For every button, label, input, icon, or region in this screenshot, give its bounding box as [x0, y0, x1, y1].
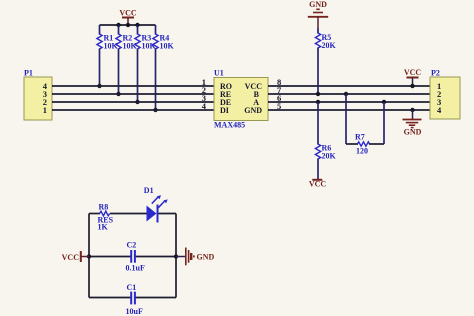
resistor R4 10K: [153, 25, 175, 112]
svg-text:D1: D1: [144, 186, 154, 195]
resistor R1 10K: [97, 25, 119, 88]
resistor R2 10K: [116, 25, 138, 96]
svg-text:GND: GND: [244, 106, 262, 115]
svg-text:C1: C1: [127, 283, 137, 292]
power port GND (below P2): [403, 108, 422, 137]
svg-text:MAX485: MAX485: [214, 121, 245, 130]
svg-text:10uF: 10uF: [126, 307, 143, 316]
svg-text:GND: GND: [404, 128, 422, 137]
wire left rail of lamp circuit: [88, 214, 90, 298]
connector P1: [24, 69, 52, 121]
svg-text:U1: U1: [214, 69, 224, 78]
resistor R5 20K: [315, 28, 336, 96]
wire U1.7 B net to P2.2: [268, 93, 430, 95]
svg-text:VCC: VCC: [62, 253, 80, 262]
svg-text:1K: 1K: [98, 223, 109, 232]
svg-text:C2: C2: [127, 241, 137, 250]
power port GND (top, above R5): [308, 0, 328, 28]
wire middle branch (C2): [87, 254, 178, 258]
resistor R8 RES 1K: [98, 203, 114, 232]
svg-text:P1: P1: [24, 69, 33, 78]
wire P1.1 to U1.DI: [52, 109, 214, 111]
wire bottom branch (C1): [89, 297, 176, 299]
wire P1.2 to U1.DE: [52, 101, 214, 103]
svg-text:VCC: VCC: [119, 9, 137, 18]
svg-text:GND: GND: [197, 253, 215, 262]
resistor R7 120: [344, 92, 386, 156]
svg-text:20K: 20K: [322, 152, 337, 161]
svg-text:GND: GND: [309, 0, 327, 9]
svg-text:DI: DI: [220, 106, 229, 115]
wire right rail of lamp circuit: [175, 214, 177, 298]
power port VCC (above P2): [404, 68, 422, 88]
svg-text:0.1uF: 0.1uF: [126, 264, 145, 273]
svg-text:10K: 10K: [123, 42, 138, 51]
power port VCC (top-left): [119, 9, 137, 26]
svg-text:VCC: VCC: [404, 68, 422, 77]
svg-text:R7: R7: [355, 133, 365, 142]
capacitor C2 0.1uF: [126, 241, 145, 273]
op-amp U1 MAX485: [202, 69, 282, 130]
wire U1.5 GND net to P2.4: [268, 109, 430, 111]
svg-text:10K: 10K: [104, 42, 119, 51]
svg-text:R8: R8: [99, 203, 109, 212]
resistor R3 10K: [135, 25, 157, 104]
resistor R6 20K: [315, 100, 336, 179]
svg-text:120: 120: [356, 147, 368, 156]
wire LED branch (top of lamp circuit): [89, 213, 176, 215]
svg-text:10K: 10K: [160, 42, 175, 51]
svg-text:20K: 20K: [322, 41, 337, 50]
svg-text:P2: P2: [431, 69, 440, 78]
power port GND (lamp circuit, right): [176, 248, 215, 266]
wire P1.3 to U1.RE: [52, 93, 214, 95]
power port VCC (below R6): [309, 180, 327, 189]
wire U1.6 A net to P2.3: [268, 101, 430, 103]
LED D1: [144, 186, 168, 223]
svg-text:1: 1: [43, 105, 47, 115]
wire U1.8 VCC net to P2.1: [268, 85, 430, 87]
power port VCC (lamp circuit, left): [62, 251, 89, 262]
wire VCC rail: [100, 23, 156, 27]
capacitor C1 10uF: [126, 283, 143, 316]
connector P2: [430, 69, 460, 120]
svg-text:VCC: VCC: [309, 180, 327, 189]
wire P1.4 to U1.RO: [52, 85, 214, 87]
